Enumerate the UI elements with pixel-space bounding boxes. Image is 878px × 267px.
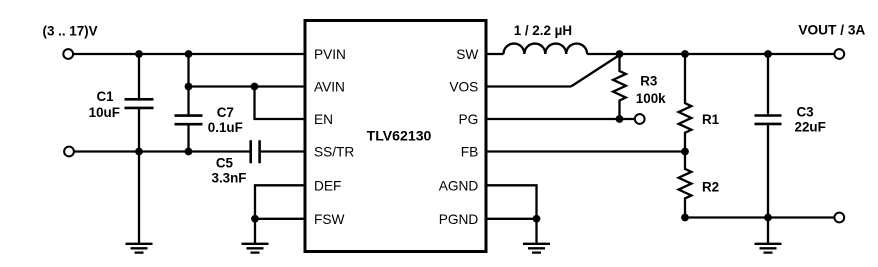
wire EN branch <box>255 87 306 120</box>
node VIN terminal <box>63 49 73 59</box>
ground below PGND <box>523 244 550 253</box>
node junction R1 top <box>681 50 689 58</box>
node junction C3 bottom <box>764 214 772 222</box>
node junction C1 top <box>135 50 143 58</box>
wire VIN to PVIN <box>73 53 305 55</box>
svg-text:1 / 2.2 µH: 1 / 2.2 µH <box>514 23 572 38</box>
wire C7 upper lead <box>187 54 189 114</box>
inductor L1 <box>504 44 588 54</box>
wire FB <box>486 150 685 152</box>
node junction FB/R1/R2 <box>681 148 689 156</box>
node junction C3 top <box>764 50 772 58</box>
node junction C7 top <box>185 50 193 58</box>
svg-text:100k: 100k <box>636 91 666 106</box>
wire C7 lower lead <box>187 125 189 151</box>
svg-text:FB: FB <box>461 145 479 160</box>
svg-text:FSW: FSW <box>314 212 344 227</box>
node junction EN branch <box>251 83 259 91</box>
svg-text:PG: PG <box>459 112 479 127</box>
wire SSTR right <box>261 150 305 152</box>
node junction C1 / SSTR line <box>135 148 143 156</box>
svg-text:PVIN: PVIN <box>314 47 346 62</box>
svg-text:R2: R2 <box>702 180 719 195</box>
node junction PG/R3 <box>616 115 624 123</box>
wire C1 lower lead to ground <box>138 109 140 243</box>
ground below C3 <box>755 244 782 253</box>
op-amp U1 TLV62130 body <box>305 21 486 252</box>
capacitor C7 <box>175 116 203 125</box>
svg-text:3.3nF: 3.3nF <box>212 170 247 185</box>
wire SSTR left <box>74 150 249 152</box>
svg-text:22uF: 22uF <box>795 119 826 134</box>
wire C1 upper lead <box>138 54 140 98</box>
capacitor C3 <box>755 116 782 124</box>
wire C3 ground stem <box>767 218 769 244</box>
node bottom-right terminal <box>834 213 844 223</box>
svg-text:C1: C1 <box>96 89 114 104</box>
wire PGND <box>486 218 537 220</box>
svg-text:VOS: VOS <box>449 80 478 95</box>
capacitor C5 <box>251 140 260 163</box>
node SSTR input terminal <box>64 147 74 157</box>
svg-text:C7: C7 <box>217 105 234 120</box>
capacitor C1 <box>125 99 154 108</box>
svg-text:DEF: DEF <box>314 179 341 194</box>
wire C3 upper lead <box>767 54 769 114</box>
svg-text:(3 .. 17)V: (3 .. 17)V <box>43 23 98 38</box>
wire VOS horizontal <box>486 85 571 87</box>
svg-text:R1: R1 <box>702 112 720 127</box>
node junction DEF/FSW <box>251 215 259 223</box>
resistor R2 <box>679 152 692 218</box>
svg-text:TLV62130: TLV62130 <box>367 127 432 143</box>
svg-text:0.1uF: 0.1uF <box>208 120 243 135</box>
wire DEF elbow <box>255 185 305 219</box>
svg-text:VOUT / 3A: VOUT / 3A <box>798 23 865 38</box>
node junction AGND/PGND <box>533 215 541 223</box>
svg-text:C5: C5 <box>216 155 234 170</box>
wire AGND elbow <box>486 185 537 219</box>
svg-text:AVIN: AVIN <box>314 80 345 95</box>
node junction SW/R3 <box>616 50 624 58</box>
svg-text:C3: C3 <box>797 105 814 120</box>
node junction C7 bottom <box>185 148 193 156</box>
svg-text:AGND: AGND <box>439 179 479 194</box>
ground below C1 <box>126 244 153 253</box>
wire AVIN <box>189 85 306 87</box>
wire C3 lower lead <box>767 125 769 218</box>
resistor R1 <box>679 54 692 152</box>
svg-text:SW: SW <box>456 47 478 62</box>
wire FSW ground stem <box>254 219 256 243</box>
svg-text:R3: R3 <box>640 74 657 89</box>
wire FSW <box>255 218 305 220</box>
wire PG <box>486 118 635 120</box>
svg-text:EN: EN <box>314 112 333 127</box>
wire PGND ground stem <box>535 219 537 243</box>
svg-text:PGND: PGND <box>439 212 479 227</box>
svg-text:10uF: 10uF <box>89 105 120 120</box>
node junction R2 bottom <box>681 214 689 222</box>
ground below FSW <box>242 244 269 253</box>
wire VOS diagonal to SW node <box>571 55 620 87</box>
node junction AVIN <box>185 83 193 91</box>
wire inductor to VOUT rail <box>587 53 834 55</box>
node VOUT terminal <box>834 49 844 59</box>
svg-text:SS/TR: SS/TR <box>314 145 354 160</box>
resistor R3 <box>613 54 626 119</box>
node PG terminal <box>635 114 645 124</box>
wire bottom rail <box>685 216 834 218</box>
wire SW to inductor <box>486 53 504 55</box>
